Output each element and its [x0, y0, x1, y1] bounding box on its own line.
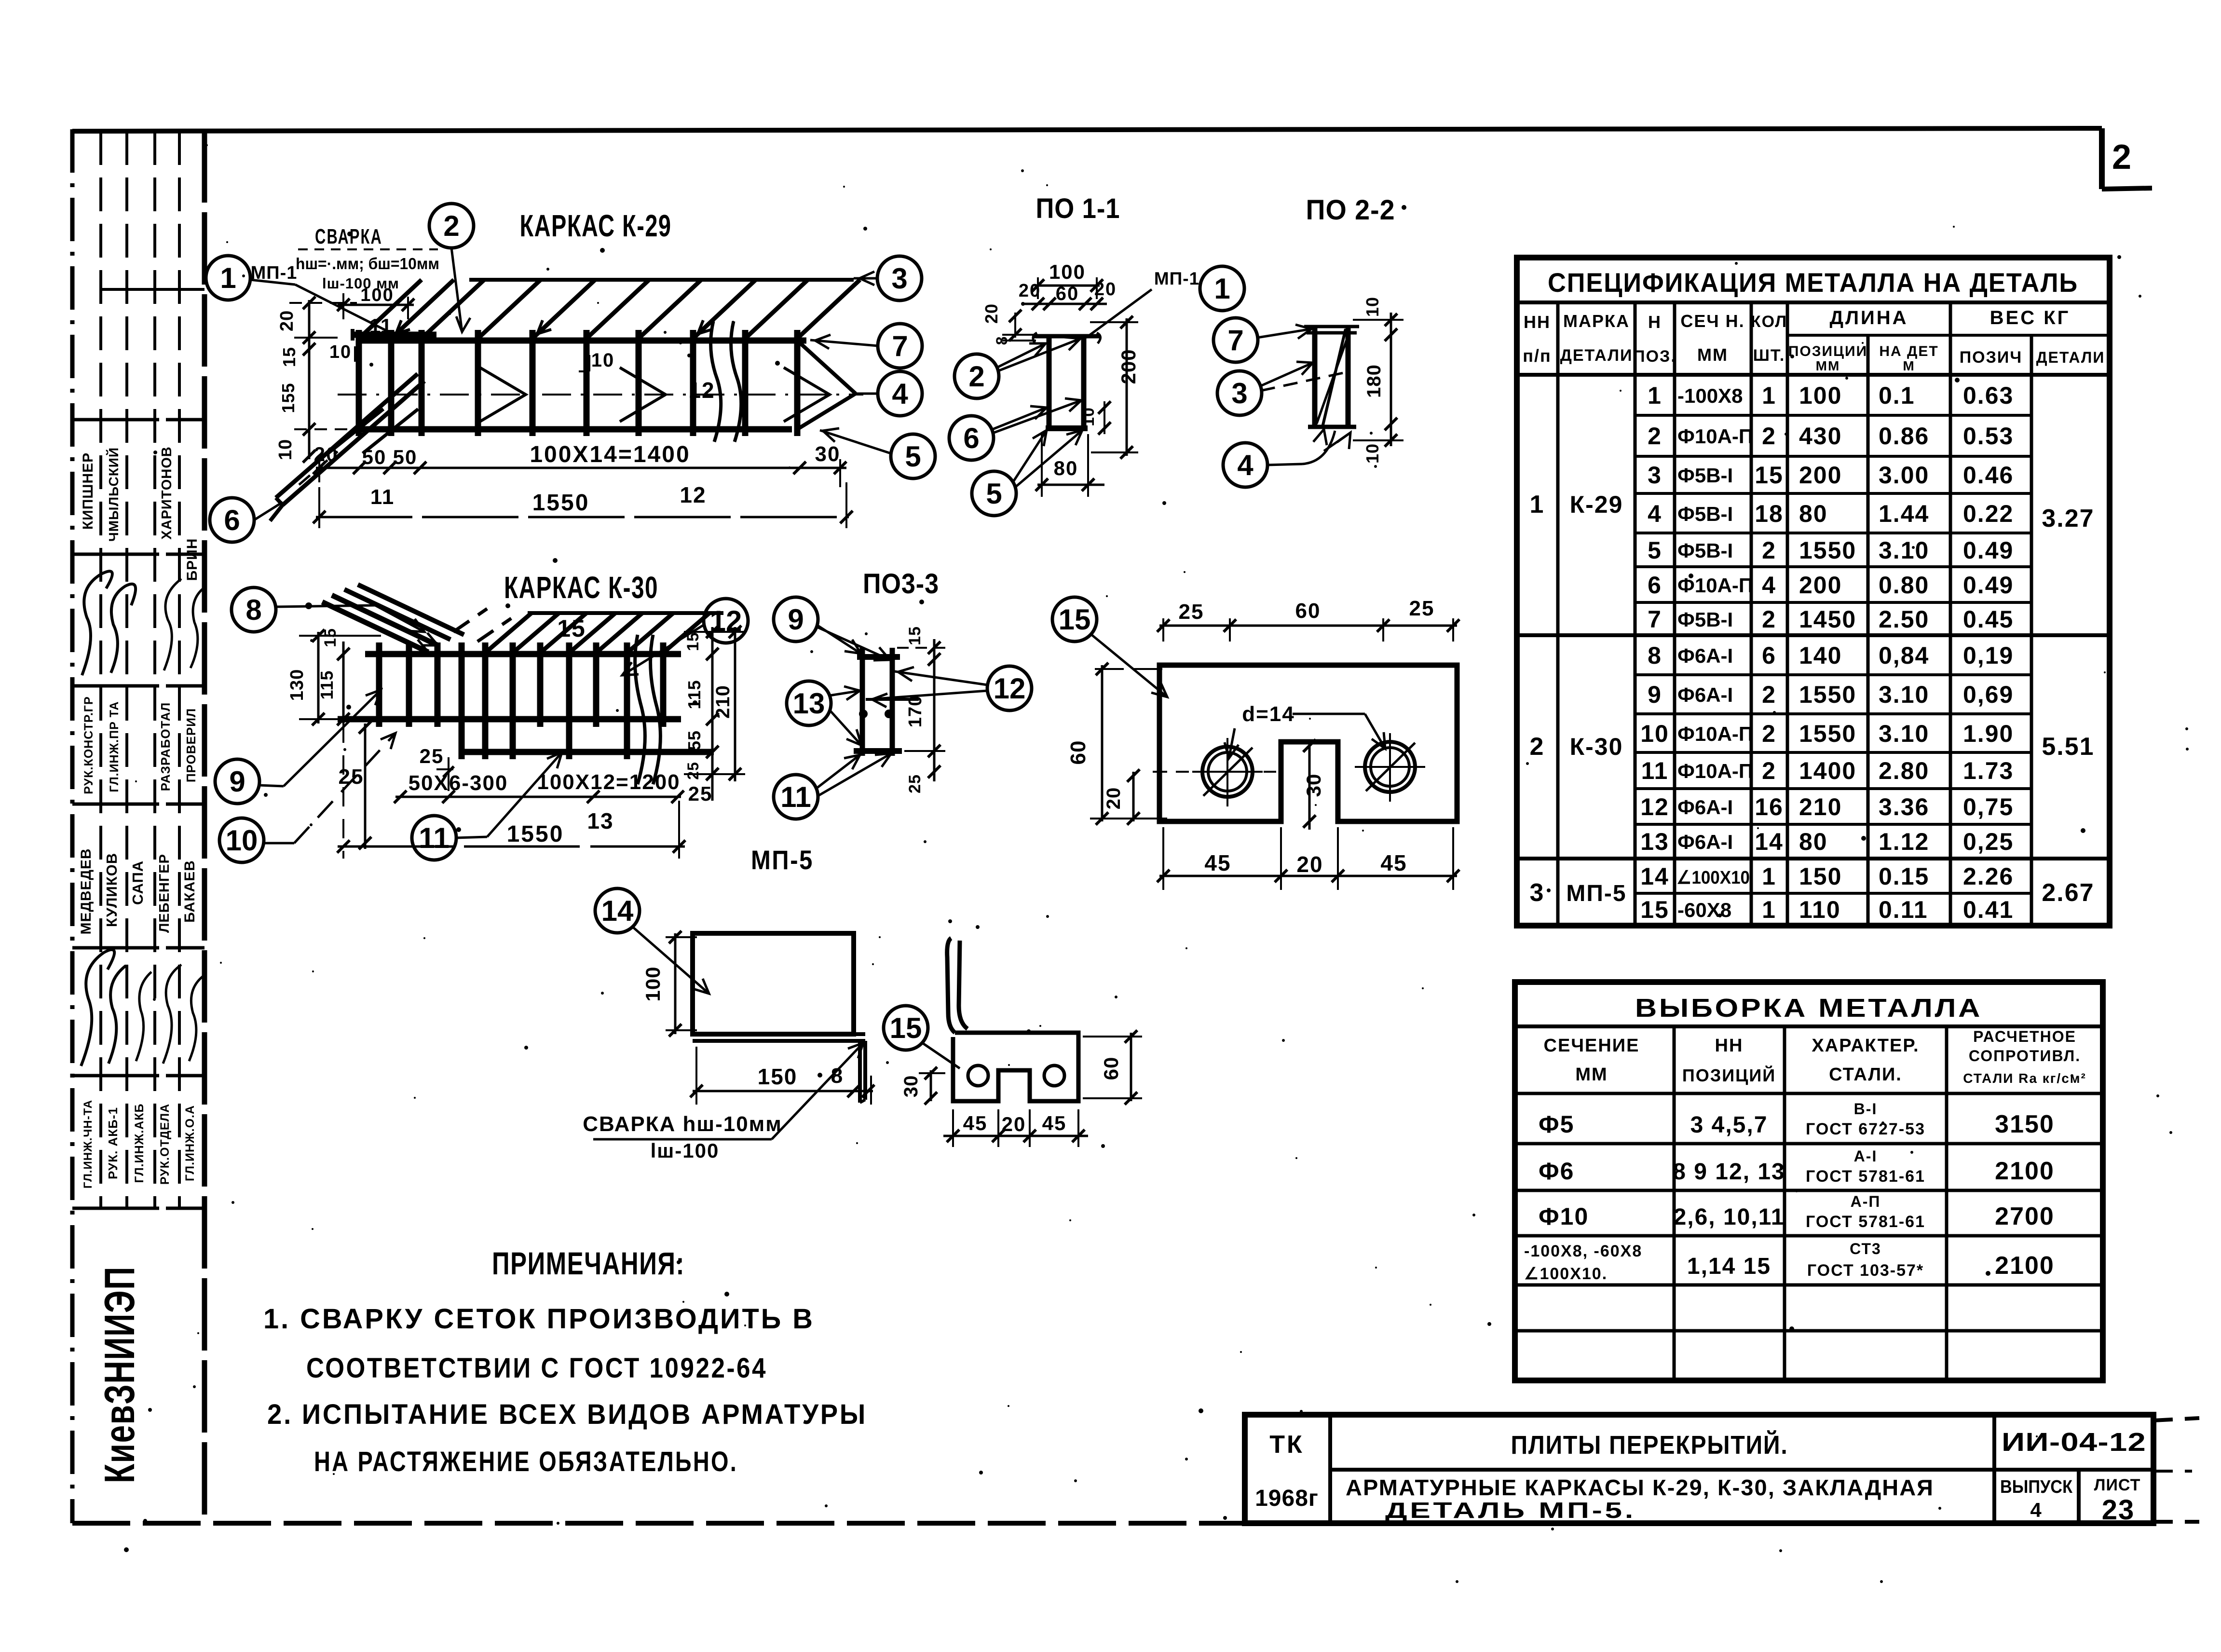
К-30 lower flange chord (поз.11) [462, 749, 714, 755]
spec table data rows [1640, 382, 2014, 923]
svg-text:ГОСТ 5781-61: ГОСТ 5781-61 [1806, 1167, 1925, 1186]
svg-text:3.36: 3.36 [1879, 793, 1929, 820]
svg-text:БАКАЕВ: БАКАЕВ [182, 860, 198, 923]
К-30 vertical bars long (поз.12) [462, 642, 627, 759]
svg-text:6: 6 [1648, 572, 1662, 599]
svg-text:4: 4 [1762, 572, 1776, 599]
svg-text:10: 10 [1079, 407, 1098, 426]
По1-1 right dim 200 [1090, 316, 1140, 459]
spec table header bottom line [1517, 373, 2110, 377]
МП-5 top dim 25/60/25 [1157, 597, 1459, 642]
svg-text:ПОЗИЦИИ: ПОЗИЦИИ [1788, 343, 1867, 359]
svg-text:1.12: 1.12 [1879, 828, 1929, 855]
spec table title [1517, 267, 2110, 302]
По3-3 bar section dots [859, 710, 893, 718]
selection table title [1515, 994, 2103, 1026]
К-29 lower flange hatch (left) [328, 409, 418, 453]
callout 14 [595, 888, 709, 994]
svg-text:15: 15 [1640, 896, 1669, 923]
spec table row lines (поз.3-8 columns only) [1517, 415, 2110, 893]
svg-text:10: 10 [275, 439, 296, 460]
svg-text:М: М [1903, 358, 1915, 373]
svg-text:2: 2 [1762, 720, 1776, 747]
svg-text:7: 7 [1648, 606, 1662, 633]
callout 9 [215, 690, 381, 804]
svg-text:25: 25 [906, 774, 924, 793]
По2-2 top rails [1304, 327, 1359, 333]
svg-text:КАРКАС К-29: КАРКАС К-29 [520, 208, 672, 243]
callout 11 К-30 [412, 752, 562, 860]
svg-text:14: 14 [1755, 828, 1784, 855]
svg-text:К-30: К-30 [1570, 733, 1623, 760]
svg-text:100Х12=1200: 100Х12=1200 [537, 770, 680, 794]
svg-text:-60Х8: -60Х8 [1677, 899, 1731, 921]
svg-text:1550: 1550 [1799, 720, 1856, 747]
svg-text:0,84: 0,84 [1879, 642, 1929, 669]
svg-text:30: 30 [1302, 774, 1325, 797]
svg-text:20: 20 [1094, 279, 1117, 300]
svg-text:25: 25 [688, 782, 713, 805]
title block frame [1245, 1415, 2199, 1523]
svg-text:0.45: 0.45 [1963, 606, 2014, 633]
svg-text:Ф10: Ф10 [1539, 1203, 1589, 1230]
title Каркас К-30 [504, 570, 658, 605]
svg-text:КиевЗНИИЭП: КиевЗНИИЭП [95, 1266, 143, 1483]
svg-text:210: 210 [712, 685, 734, 719]
По1-1 dim 80 bottom [1036, 434, 1104, 497]
svg-text:0.22: 0.22 [1963, 500, 2014, 527]
svg-text:25: 25 [1179, 600, 1204, 624]
К-30 hatch diagonals mid [487, 613, 709, 651]
svg-text:ПОЗ.: ПОЗ. [1633, 347, 1676, 366]
callout 6 [210, 498, 283, 542]
svg-text:РАЗРАБОТАЛ: РАЗРАБОТАЛ [158, 702, 173, 791]
callout 1 [206, 256, 295, 300]
svg-text:10: 10 [591, 350, 615, 371]
svg-text:МП-1: МП-1 [1154, 269, 1199, 288]
svg-text:1450: 1450 [1799, 606, 1856, 633]
svg-text:200: 200 [1117, 349, 1140, 384]
svg-text:45: 45 [1204, 850, 1231, 875]
svg-text:0,25: 0,25 [1963, 828, 2014, 855]
svg-text:lш-100: lш-100 [651, 1139, 720, 1162]
spec table outer frame [1517, 258, 2110, 926]
svg-text:2700: 2700 [1995, 1202, 2055, 1230]
svg-text:15: 15 [890, 1012, 922, 1044]
svg-text:РАСЧЕТНОЕ: РАСЧЕТНОЕ [1973, 1028, 2076, 1045]
svg-text:210: 210 [1799, 793, 1842, 820]
svg-text:Ф10А-П: Ф10А-П [1677, 425, 1753, 448]
svg-text:100: 100 [1799, 382, 1842, 409]
svg-text:18: 18 [1755, 500, 1784, 527]
svg-text:11: 11 [1641, 757, 1669, 784]
svg-text:2: 2 [968, 360, 984, 393]
МП-1 leader label [251, 263, 400, 338]
svg-text:0.63: 0.63 [1963, 382, 2014, 409]
svg-text:ЛИСТ: ЛИСТ [2094, 1476, 2141, 1494]
svg-text:20: 20 [1296, 852, 1323, 877]
callout 15 МП-5 plate [1052, 597, 1167, 697]
svg-text:6: 6 [1762, 642, 1776, 669]
svg-text:Ф6А-I: Ф6А-I [1677, 831, 1733, 853]
svg-text:ТК: ТК [1269, 1431, 1304, 1459]
callout 2 section [954, 337, 1080, 398]
svg-text:6: 6 [963, 422, 979, 454]
svg-text:ГЛ.ИНЖ.ПР ТА: ГЛ.ИНЖ.ПР ТА [108, 701, 121, 792]
svg-text:50Х6-300: 50Х6-300 [409, 771, 508, 795]
svg-text:МЕДВЕДЕВ: МЕДВЕДЕВ [78, 848, 94, 934]
svg-text:ММ: ММ [1816, 358, 1840, 373]
svg-text:СЕЧ Н.: СЕЧ Н. [1680, 311, 1744, 331]
svg-text:СЕЧЕНИЕ: СЕЧЕНИЕ [1544, 1036, 1640, 1056]
svg-text:НН: НН [1524, 312, 1551, 332]
К-29 bent bar поз.6 (diagonal, lower-left) [270, 374, 424, 521]
callout 6 section [949, 398, 1081, 460]
title По 2-2 [1306, 194, 1395, 226]
title block doc number ИИ-04-12 [2002, 1428, 2146, 1457]
svg-text:12: 12 [688, 378, 715, 403]
callout 8 [232, 587, 424, 632]
svg-text:БРИН: БРИН [184, 538, 200, 581]
callout 12 К-30 [622, 599, 748, 675]
svg-text:9: 9 [788, 603, 804, 636]
svg-text:РУК. АКБ-1: РУК. АКБ-1 [106, 1107, 120, 1179]
svg-text:100: 100 [1049, 260, 1086, 283]
svg-text:15: 15 [906, 626, 924, 645]
svg-text:20: 20 [981, 303, 1001, 324]
part 14 plate rectangle [693, 933, 854, 1034]
svg-text:0.41: 0.41 [1963, 896, 2014, 923]
svg-text:4: 4 [1648, 500, 1662, 527]
svg-text:7: 7 [1227, 324, 1243, 356]
svg-text:1: 1 [1214, 273, 1230, 305]
note line 2b [314, 1446, 738, 1477]
svg-text:Н: Н [1648, 312, 1662, 332]
К-30 left dim chain 130/115/15 [287, 628, 381, 725]
К-29 end convergence (right tip) [797, 341, 856, 429]
МП-5 bottom dim 45/20/45 [1157, 827, 1459, 890]
svg-text:2100: 2100 [1995, 1157, 2055, 1185]
svg-text:80: 80 [1799, 828, 1828, 855]
svg-text:ПОЗИЦИЙ: ПОЗИЦИЙ [1682, 1065, 1776, 1085]
svg-text:А-I: А-I [1854, 1147, 1878, 1165]
label 15 on К-30 hatch [557, 615, 586, 642]
svg-text:2100: 2100 [1995, 1252, 2055, 1280]
stamp strip column lines [101, 131, 179, 1208]
title block Лист 23 [2094, 1476, 2141, 1526]
svg-text:КОЛ: КОЛ [1751, 313, 1787, 331]
svg-text:20: 20 [1002, 1113, 1026, 1135]
svg-text:3.27: 3.27 [2042, 505, 2094, 532]
svg-text:130: 130 [287, 669, 307, 701]
svg-text:150: 150 [1799, 863, 1842, 890]
svg-text:ДЛИНА: ДЛИНА [1829, 307, 1908, 328]
По2-2 right bar (поз.7) [1346, 327, 1351, 427]
svg-text:2: 2 [1762, 757, 1776, 784]
callout 13 По3-3 [787, 681, 861, 745]
svg-text:СТ3: СТ3 [1850, 1240, 1881, 1257]
svg-text:60: 60 [1295, 599, 1321, 623]
svg-text:10: 10 [1363, 443, 1382, 464]
svg-text:45: 45 [963, 1112, 988, 1134]
svg-text:ВЕС КГ: ВЕС КГ [1990, 307, 2071, 328]
svg-text:А-П: А-П [1851, 1193, 1881, 1210]
d=14 label with leaders [1225, 702, 1385, 758]
svg-text:20: 20 [314, 443, 339, 465]
svg-text:ГОСТ 6727-53: ГОСТ 6727-53 [1806, 1120, 1925, 1138]
svg-text:hш=·.мм; бш=10мм: hш=·.мм; бш=10мм [296, 255, 439, 273]
svg-text:МП-5: МП-5 [751, 845, 814, 875]
По1-1 right bar (поз.2) [1081, 338, 1087, 428]
svg-text:-100Х8: -100Х8 [1677, 384, 1743, 407]
svg-text:Ф10А-П: Ф10А-П [1677, 574, 1753, 597]
svg-text:15: 15 [321, 628, 340, 647]
part 14 dim 100 left [641, 931, 697, 1037]
По1-1 МП-1 plate top [1032, 333, 1101, 343]
svg-text:1550: 1550 [532, 490, 590, 516]
stamp strip inner border [202, 130, 207, 1523]
svg-text:4: 4 [1237, 449, 1254, 481]
svg-text:2.26: 2.26 [1963, 863, 2014, 890]
По1-1 left dims 20 and 8 [981, 303, 1036, 345]
svg-text:5: 5 [986, 478, 1002, 510]
notes heading Примечания [492, 1245, 685, 1281]
svg-text:ПО 2-2: ПО 2-2 [1306, 194, 1395, 226]
svg-text:20: 20 [1019, 281, 1041, 301]
note line 2 [267, 1399, 867, 1430]
svg-text:7: 7 [892, 330, 908, 362]
callout 7 section2 [1213, 318, 1311, 362]
svg-text:30: 30 [815, 442, 841, 466]
stamp strip horizontal dividers [72, 289, 204, 1208]
svg-text:КИПШНЕР: КИПШНЕР [80, 452, 96, 530]
svg-text:ПЛИТЫ ПЕРЕКРЫТИЙ.: ПЛИТЫ ПЕРЕКРЫТИЙ. [1511, 1430, 1788, 1460]
svg-text:1.73: 1.73 [1963, 757, 2014, 784]
svg-text:14: 14 [1640, 863, 1669, 890]
svg-text:25: 25 [1409, 597, 1435, 620]
К-30 dim line 50x6-300 / 100x12=1200 [394, 770, 712, 805]
svg-text:ИИ-04-12: ИИ-04-12 [2002, 1428, 2146, 1457]
К-29 break lines [711, 321, 741, 442]
svg-text:МП-5: МП-5 [1566, 881, 1626, 906]
svg-text:ПО3-3: ПО3-3 [863, 568, 939, 600]
svg-text:КУЛИКОВ: КУЛИКОВ [103, 853, 120, 927]
svg-text:Ф5: Ф5 [1539, 1111, 1574, 1138]
svg-text:СВАРКА hш-10мм: СВАРКА hш-10мм [583, 1112, 782, 1136]
svg-text:ГЛ.ИНЖ.О.А: ГЛ.ИНЖ.О.А [183, 1105, 197, 1181]
spec table header texts [1523, 307, 2105, 373]
svg-text:60: 60 [1056, 283, 1079, 304]
svg-text:10: 10 [1363, 297, 1382, 317]
svg-text:3: 3 [1530, 879, 1545, 907]
svg-text:11: 11 [370, 485, 395, 509]
sheet frame left outer border [70, 129, 75, 1523]
svg-text:2.80: 2.80 [1879, 757, 1929, 784]
svg-text:15: 15 [1059, 603, 1091, 636]
МП-5 hole centerline dashes [1153, 771, 1283, 773]
svg-text:АРМАТУРНЫЕ КАРКАСЫ К-29, К-: АРМАТУРНЫЕ КАРКАСЫ К-29, К-30, ЗАКЛАДНАЯ [1346, 1475, 1934, 1500]
По3-3 bottom bar [854, 748, 902, 754]
svg-text:3: 3 [1648, 462, 1662, 489]
svg-text:ГОСТ 103-57*: ГОСТ 103-57* [1807, 1261, 1924, 1280]
svg-text:В-I: В-I [1854, 1100, 1878, 1118]
svg-text:45: 45 [1380, 850, 1407, 875]
svg-text:100: 100 [641, 966, 664, 1001]
svg-text:8 9 12, 13: 8 9 12, 13 [1673, 1159, 1785, 1185]
svg-text:САПА: САПА [129, 860, 146, 905]
dim 100 (top-left) [337, 285, 414, 337]
svg-text:∠100Х10.: ∠100Х10. [1524, 1265, 1608, 1283]
callout 9 По3-3 [774, 597, 890, 660]
К-30 back chord line of hatch [528, 611, 723, 615]
svg-text:200: 200 [1799, 572, 1842, 599]
svg-text:Ф6А-I: Ф6А-I [1677, 683, 1733, 706]
По3-3 middle wire with leader from 12 [866, 698, 919, 701]
svg-text:12: 12 [994, 672, 1026, 705]
spec table group cells К-29 К-30 МП-5 [1530, 491, 2095, 907]
svg-text:3.00: 3.00 [1879, 462, 1929, 489]
page number box top-right [2102, 128, 2152, 189]
svg-text:КАРКАС К-30: КАРКАС К-30 [504, 570, 658, 605]
selection table column lines [1674, 1026, 1947, 1380]
svg-text:МАРКА: МАРКА [1563, 311, 1630, 331]
stamp signatures row 2 [81, 950, 205, 1066]
note line 1 [263, 1303, 815, 1335]
dim line 20-50-50-100x14=1400-30 [313, 442, 846, 509]
svg-text:1: 1 [1530, 491, 1545, 519]
title block subject line [1346, 1475, 1934, 1523]
left vertical dim chain 20/15/155/10 [275, 297, 357, 463]
svg-text:0.86: 0.86 [1879, 423, 1929, 450]
stamp signatures row 1 [82, 571, 206, 675]
МП-5 right hole d=14 [1355, 733, 1425, 802]
svg-text:11: 11 [369, 314, 393, 337]
title block Плиты перекрытий [1511, 1430, 1788, 1460]
svg-text:ЧМЫЛЬСКИЙ: ЧМЫЛЬСКИЙ [106, 447, 121, 542]
svg-text:ПОЗИЧ: ПОЗИЧ [1960, 348, 2023, 367]
svg-text:15: 15 [279, 347, 299, 367]
svg-text:ГЛ.ИНЖ.АКБ: ГЛ.ИНЖ.АКБ [133, 1104, 146, 1183]
svg-text:11: 11 [419, 822, 449, 854]
По3-3 right bar (поз.12) [890, 648, 895, 756]
svg-text:2: 2 [1530, 733, 1545, 761]
svg-text:3.10: 3.10 [1879, 537, 1929, 564]
К-30 bent-up bars wedge (left, поз.10) [322, 585, 511, 652]
part 15 dim 60 right [1083, 1030, 1142, 1105]
part 15 plate profile with notch and holes [953, 1033, 1078, 1101]
svg-text:РУК.ОТДЕЛА: РУК.ОТДЕЛА [158, 1104, 172, 1185]
svg-text:1: 1 [220, 262, 236, 294]
stamp names row: Кипшнер, Чмыльский, Харитонов, Брин [80, 446, 200, 581]
svg-text:-100Х8, -60Х8: -100Х8, -60Х8 [1524, 1242, 1642, 1260]
svg-text:25: 25 [684, 762, 702, 780]
svg-text:5: 5 [905, 440, 921, 473]
part 14 bottom flange double line [693, 1034, 865, 1041]
svg-text:2: 2 [1762, 537, 1776, 564]
svg-text:45: 45 [1042, 1112, 1067, 1134]
По2-2 left bar (поз.7) [1312, 327, 1318, 427]
callout 5 section [972, 430, 1082, 516]
sheet frame bottom border [72, 1521, 1246, 1526]
part 15 vertical leg [947, 938, 967, 1033]
К-30 left dim 25 [339, 721, 371, 849]
svg-text:1.44: 1.44 [1879, 500, 1929, 527]
svg-text:12: 12 [710, 605, 742, 637]
svg-text:2: 2 [1762, 606, 1776, 633]
svg-text:20: 20 [1103, 787, 1124, 810]
svg-text:13: 13 [1640, 828, 1669, 855]
svg-text:Ф6А-I: Ф6А-I [1677, 644, 1733, 667]
svg-text:СООТВЕТСТВИИ С ГОСТ 10922-64: СООТВЕТСТВИИ С ГОСТ 10922-64 [306, 1352, 767, 1384]
МП-5 label under По3-3 [751, 845, 814, 875]
svg-text:НА РАСТЯЖЕНИЕ ОБЯЗАТЕЛЬНО.: НА РАСТЯЖЕНИЕ ОБЯЗАТЕЛЬНО. [314, 1446, 738, 1477]
svg-text:430: 430 [1799, 423, 1842, 450]
svg-text:СОПРОТИВЛ.: СОПРОТИВЛ. [1969, 1047, 2081, 1065]
label 10 mid-cage [579, 350, 614, 371]
svg-text:2.50: 2.50 [1879, 606, 1929, 633]
svg-text:100: 100 [360, 285, 394, 305]
svg-text:ПРИМЕЧАНИЯ:: ПРИМЕЧАНИЯ: [492, 1245, 685, 1281]
По3-3 left bar (поз.12) [860, 648, 865, 756]
svg-text:0,75: 0,75 [1963, 793, 2014, 820]
svg-text:1550: 1550 [507, 821, 564, 847]
weld note Сварка [296, 225, 439, 292]
svg-text:12: 12 [1640, 793, 1669, 820]
svg-text:ММ: ММ [1697, 345, 1728, 365]
svg-text:СПЕЦИФИКАЦИЯ МЕТАЛЛА НА ДЕТ: СПЕЦИФИКАЦИЯ МЕТАЛЛА НА ДЕТАЛЬ [1548, 267, 2078, 298]
svg-text:150: 150 [758, 1064, 798, 1089]
К-30 right dim chain 15/115/55/25 + 210 [684, 626, 745, 801]
К-30 break lines [635, 635, 661, 784]
svg-text:15: 15 [1755, 462, 1784, 489]
svg-text:2: 2 [2112, 138, 2132, 177]
По3-3 right dim chain 15/170/25 [897, 626, 945, 793]
svg-text:ЛЕБЕНГЕР: ЛЕБЕНГЕР [157, 854, 172, 933]
svg-text:200: 200 [1799, 462, 1842, 489]
svg-text:155: 155 [278, 382, 298, 413]
svg-text:3.10: 3.10 [1879, 681, 1929, 708]
svg-text:2,6, 10,11: 2,6, 10,11 [1674, 1204, 1785, 1230]
svg-text:Ф5В-I: Ф5В-I [1677, 608, 1733, 631]
svg-text:Ф5В-I: Ф5В-I [1677, 503, 1733, 525]
svg-text:13: 13 [793, 687, 825, 720]
svg-text:9: 9 [229, 765, 245, 798]
svg-text:0.1: 0.1 [1879, 382, 1915, 409]
stamp names row 2: Медведев, Куликов, Сапа, Лебенгер, Бакаев [78, 848, 198, 934]
svg-text:0.11: 0.11 [1879, 896, 1928, 923]
svg-text:60: 60 [1100, 1057, 1122, 1080]
svg-text:3: 3 [1231, 377, 1247, 410]
svg-text:1550: 1550 [1799, 537, 1856, 564]
part 14 dim 150 and 8 [690, 1047, 874, 1105]
svg-text:Ф10А-П: Ф10А-П [1677, 723, 1753, 745]
svg-text:ДЕТАЛЬ МП-5.: ДЕТАЛЬ МП-5. [1385, 1498, 1636, 1523]
svg-text:ВЫПУСК: ВЫПУСК [2000, 1477, 2073, 1497]
svg-text:1.90: 1.90 [1963, 720, 2014, 747]
svg-text:Ф6: Ф6 [1539, 1158, 1574, 1185]
К-30 bottom chord (поз.9) [338, 716, 681, 723]
По1-1 left bar (поз.2) [1047, 338, 1052, 428]
svg-text:0,19: 0,19 [1963, 642, 2014, 669]
svg-text:ХАРАКТЕР.: ХАРАКТЕР. [1812, 1036, 1919, 1056]
svg-text:Ф5В-I: Ф5В-I [1677, 464, 1733, 487]
По3-3 top bar [857, 654, 900, 660]
part 15 dim 30 left [900, 1067, 945, 1105]
МП-5 plate outline with notch [1159, 665, 1457, 821]
svg-text:2: 2 [1762, 681, 1776, 708]
callout 7 with leader [810, 324, 922, 368]
callout 12 По3-3 [868, 666, 1032, 710]
